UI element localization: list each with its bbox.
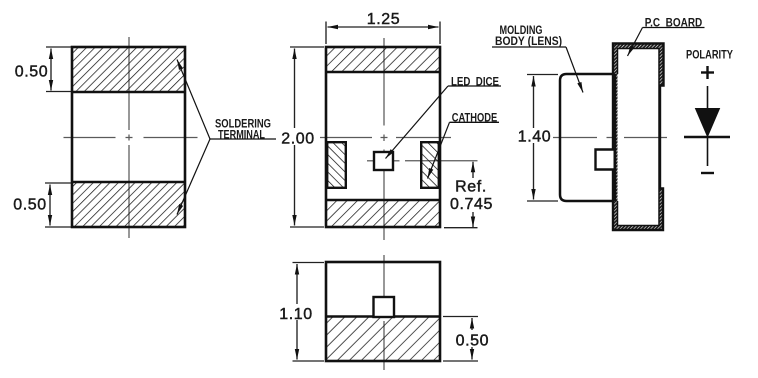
MOLDING BODY (LENS) label and leader <box>492 25 583 93</box>
side view terminal notch <box>596 150 614 170</box>
svg-text:Ref.: Ref. <box>455 179 487 196</box>
svg-text:BODY (LENS): BODY (LENS) <box>495 36 562 48</box>
svg-text:POLARITY: POLARITY <box>686 50 733 62</box>
side view pc board outline <box>613 44 664 231</box>
dimension 1.10 <box>279 263 324 362</box>
dimension 0.50 left bottom <box>13 183 71 227</box>
dimension 0.50 bottom right <box>443 317 489 362</box>
left view vertical centerline <box>128 37 130 238</box>
top view right terminal pad <box>421 142 439 188</box>
polarity minus sign <box>701 172 714 174</box>
dimension 1.25 <box>326 11 440 44</box>
svg-text:0.50: 0.50 <box>15 64 49 81</box>
side view molding body <box>560 74 614 201</box>
svg-text:P.C BOARD: P.C BOARD <box>645 18 703 30</box>
left view body outline <box>72 47 185 227</box>
top view vertical centerline <box>383 38 385 240</box>
side view pc board wall hatch <box>613 44 664 231</box>
svg-text:0.50: 0.50 <box>456 333 490 350</box>
LED dice <box>374 152 393 170</box>
dimension 1.40 <box>518 75 558 202</box>
svg-text:LED DICE: LED DICE <box>451 76 499 88</box>
left view top terminal hatch <box>72 47 185 92</box>
soldering terminal label and leaders <box>177 60 276 215</box>
led dice row centerline <box>367 160 478 162</box>
bottom view vertical centerline <box>383 255 385 370</box>
svg-text:2.00: 2.00 <box>281 131 315 148</box>
LED DICE label and leader <box>386 76 502 158</box>
bottom view hatch <box>326 317 440 362</box>
polarity diode symbol <box>684 86 730 166</box>
top view bottom terminal hatch <box>326 200 440 227</box>
left view bottom terminal hatch <box>72 182 185 227</box>
svg-text:0.50: 0.50 <box>13 197 47 214</box>
POLARITY label <box>686 50 733 62</box>
dimension 2.00 <box>281 47 324 227</box>
dimension 0.50 left top <box>15 47 71 92</box>
P.C BOARD label and leader <box>628 18 705 57</box>
svg-text:TERMINAL: TERMINAL <box>218 129 265 141</box>
top view left terminal pad <box>327 142 346 188</box>
top view top terminal hatch <box>326 47 440 72</box>
svg-text:1.40: 1.40 <box>518 129 552 146</box>
CATHODE label and leader <box>428 113 500 179</box>
left view horizontal centerline <box>64 137 198 139</box>
svg-text:0.745: 0.745 <box>450 196 493 213</box>
bottom view dice bump <box>374 297 395 317</box>
bottom view outline <box>326 262 440 361</box>
polarity plus sign <box>701 66 714 79</box>
top view body outline <box>326 47 440 227</box>
svg-text:1.10: 1.10 <box>279 306 313 323</box>
top view horizontal centerline <box>320 137 451 139</box>
svg-text:1.25: 1.25 <box>367 11 401 28</box>
svg-text:CATHODE: CATHODE <box>452 113 498 125</box>
side view centerline <box>553 137 667 139</box>
dimension Ref. 0.745 <box>444 162 493 228</box>
